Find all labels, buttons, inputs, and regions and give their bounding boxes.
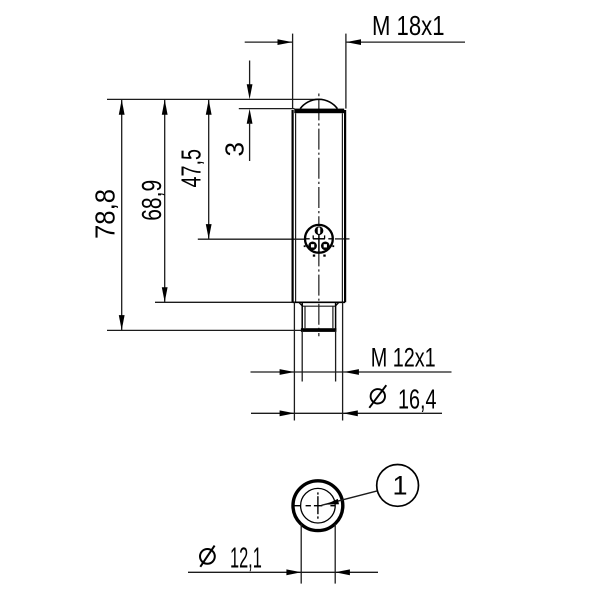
connector face circle <box>304 225 334 257</box>
diameter symbol <box>371 389 385 403</box>
dimension M 12x1 <box>251 343 452 375</box>
below dots <box>313 255 315 257</box>
sensor body: inner thread root lines <box>295 113 297 302</box>
balloon circle 1 <box>377 465 419 507</box>
center line of body (dash-dot) <box>318 94 320 337</box>
stub chamfer left <box>299 302 303 306</box>
svg-text:1: 1 <box>393 471 408 501</box>
center cross <box>313 238 325 240</box>
dimension 47,5 <box>176 99 350 239</box>
side dots <box>304 245 306 247</box>
stub bottom bar <box>301 328 337 332</box>
extension lines for Ø 12,1 <box>300 524 302 584</box>
dimension Ø 12,1 <box>188 543 378 576</box>
svg-text:3: 3 <box>220 142 250 156</box>
dimension 78,8 <box>90 99 303 330</box>
svg-text:12,1: 12,1 <box>230 543 262 575</box>
sensor body: outer walls (M18 thread crest) <box>292 110 294 302</box>
horizontal centre-line dashes inside <box>306 238 310 240</box>
pin 4 (bottom right) <box>321 241 330 250</box>
diameter symbol <box>200 549 215 564</box>
top extension line at dome tip <box>107 98 320 100</box>
dimension M 18x1 <box>245 10 465 109</box>
sensor body: bottom shoulder line <box>293 301 346 303</box>
M12 stub outer walls <box>301 303 303 331</box>
bottom view outer circle <box>293 481 343 531</box>
svg-text:47,5: 47,5 <box>176 149 207 188</box>
M12 stub thread root lines <box>304 306 306 328</box>
M12 stub shoulder line <box>302 305 335 307</box>
extension lines below stub <box>293 302 295 420</box>
dimension 3 (dome height) <box>220 61 295 162</box>
balloon leader line with arrow <box>322 465 419 507</box>
dimension 68,9 <box>136 99 293 302</box>
svg-text:M 18x1: M 18x1 <box>372 10 445 41</box>
pin 1 (top, keyway) <box>315 226 324 235</box>
svg-text:16,4: 16,4 <box>398 384 437 415</box>
dimension Ø 16,4 <box>251 384 442 417</box>
bottom view inner circle <box>301 488 336 523</box>
pin 3 (bottom left) <box>308 241 317 250</box>
sensor body: dome lens <box>300 99 337 108</box>
sensor body: top cap bar <box>294 109 344 114</box>
bottom view crosshair <box>294 492 335 518</box>
svg-text:68,9: 68,9 <box>136 180 167 221</box>
svg-text:M 12x1: M 12x1 <box>371 343 436 373</box>
stub chamfer right <box>335 302 339 306</box>
svg-text:78,8: 78,8 <box>90 189 121 239</box>
